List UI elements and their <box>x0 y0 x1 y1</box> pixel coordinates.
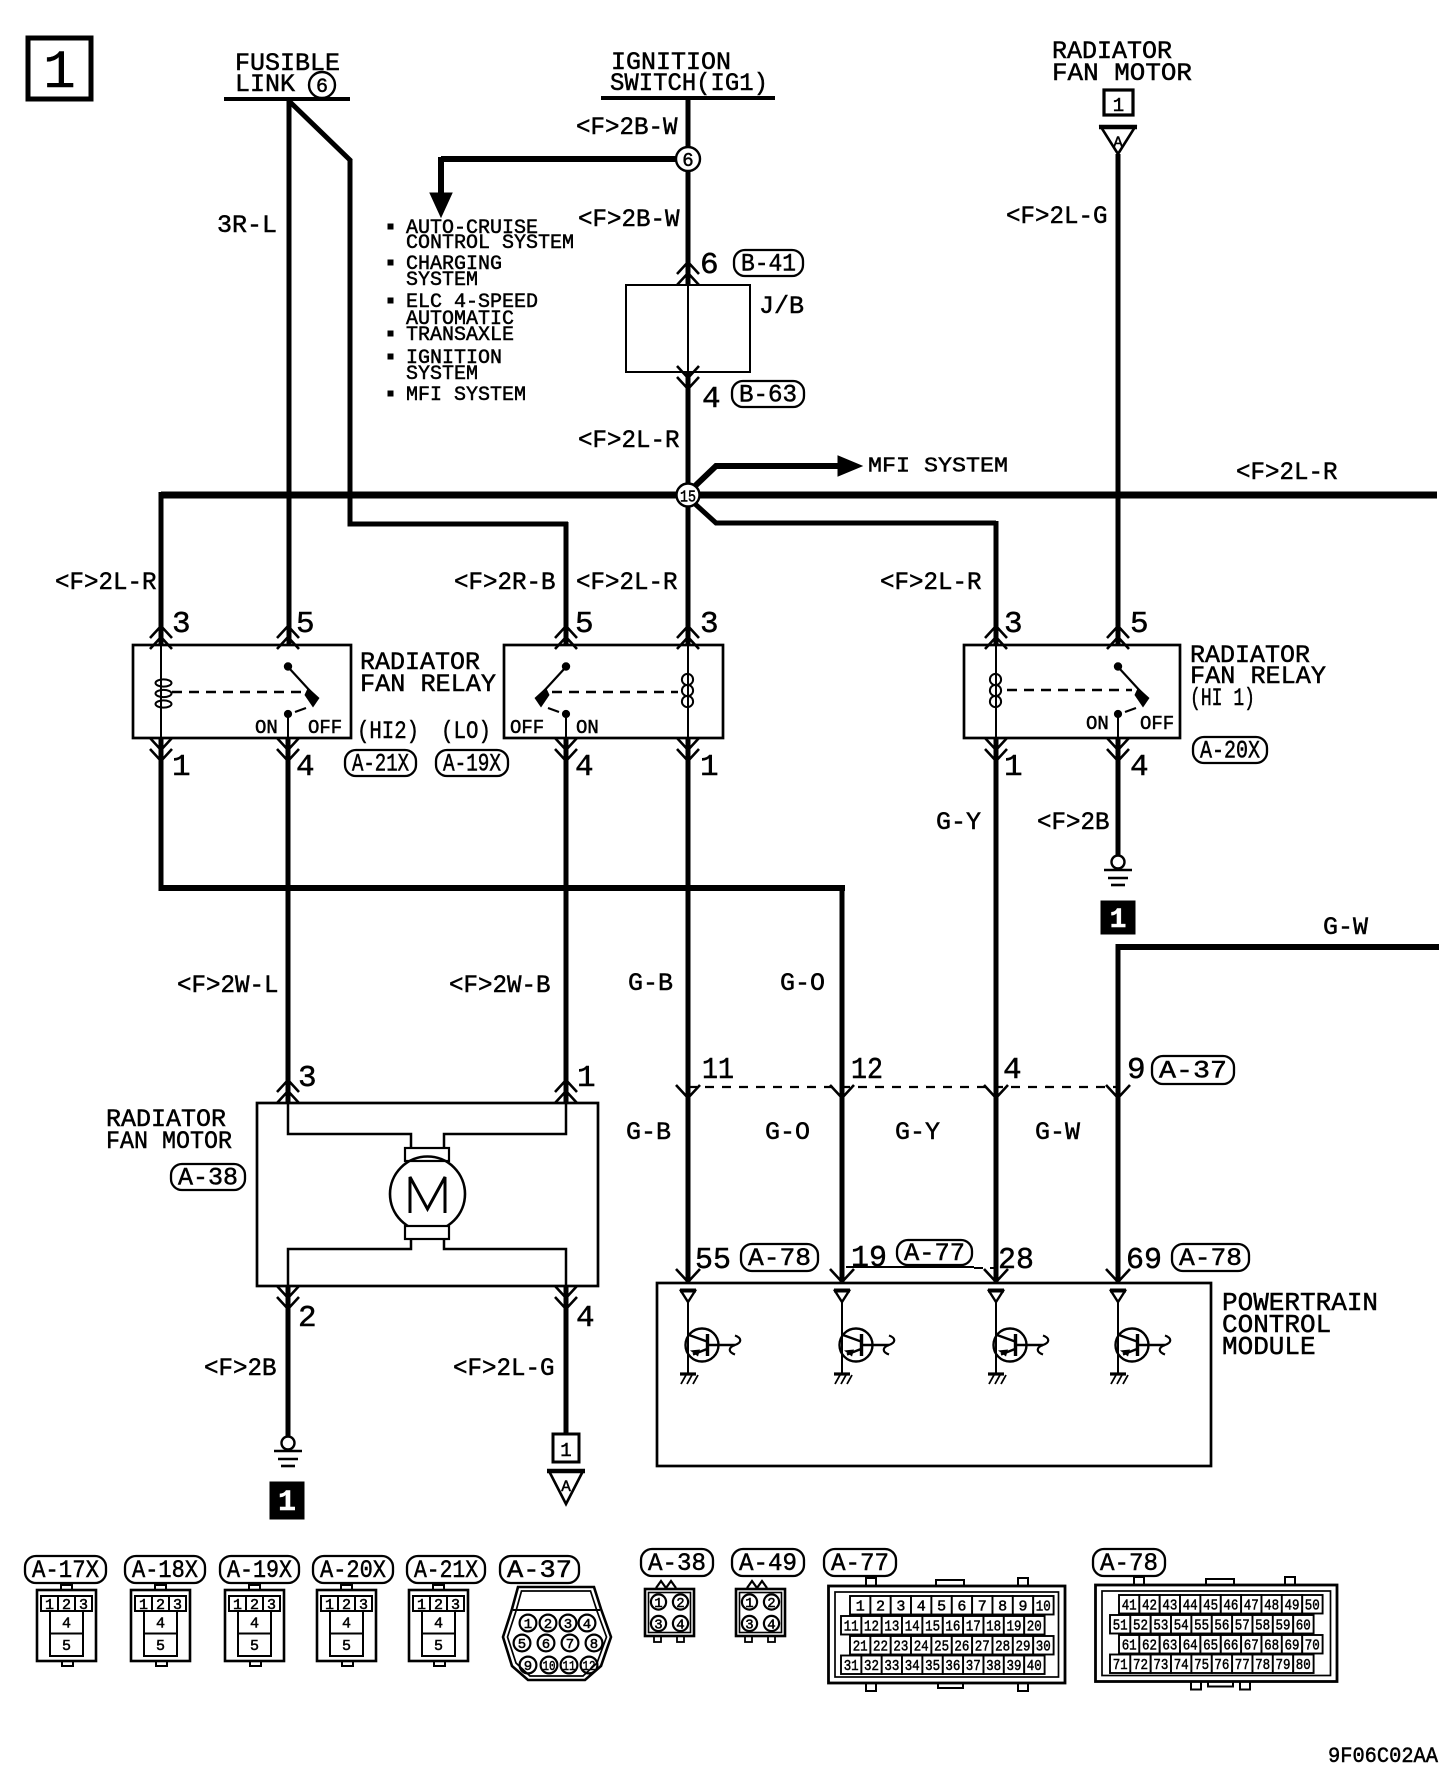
svg-text:<F>2L-R: <F>2L-R <box>576 568 678 597</box>
svg-text:A-17X: A-17X <box>32 1556 99 1585</box>
svg-text:72: 72 <box>1133 1657 1148 1674</box>
svg-text:5: 5 <box>518 1637 526 1653</box>
svg-text:5: 5 <box>937 1599 946 1616</box>
svg-text:29: 29 <box>1016 1639 1031 1656</box>
svg-text:76: 76 <box>1214 1657 1229 1674</box>
svg-text:71: 71 <box>1113 1657 1128 1674</box>
svg-text:6: 6 <box>542 1637 550 1653</box>
svg-text:65: 65 <box>1203 1638 1218 1655</box>
svg-text:<F>2L-G: <F>2L-G <box>1006 202 1108 231</box>
svg-text:44: 44 <box>1183 1598 1198 1615</box>
svg-text:<F>2L-G: <F>2L-G <box>453 1354 555 1383</box>
svg-text:17: 17 <box>966 1619 981 1636</box>
svg-text:69: 69 <box>1285 1638 1300 1655</box>
svg-text:73: 73 <box>1153 1657 1168 1674</box>
svg-text:A-19X: A-19X <box>227 1556 292 1585</box>
svg-text:A-78: A-78 <box>1179 1244 1242 1273</box>
svg-text:1: 1 <box>856 1599 865 1616</box>
svg-text:67: 67 <box>1244 1638 1259 1655</box>
svg-text:<F>2L-R: <F>2L-R <box>1236 458 1338 487</box>
svg-text:A-78: A-78 <box>1100 1549 1158 1578</box>
svg-text:3: 3 <box>896 1599 905 1616</box>
svg-text:43: 43 <box>1162 1598 1177 1615</box>
svg-text:LINK: LINK <box>235 70 295 99</box>
svg-text:62: 62 <box>1142 1638 1157 1655</box>
svg-text:A-19X: A-19X <box>443 750 501 779</box>
svg-text:5: 5 <box>296 607 315 642</box>
svg-text:74: 74 <box>1174 1657 1189 1674</box>
svg-text:OFF: OFF <box>1140 713 1174 735</box>
svg-text:39: 39 <box>1007 1658 1022 1675</box>
svg-text:1: 1 <box>700 750 719 785</box>
svg-text:70: 70 <box>1305 1638 1320 1655</box>
svg-text:OFF: OFF <box>510 717 544 739</box>
svg-text:8: 8 <box>590 1637 598 1653</box>
svg-text:25: 25 <box>934 1639 949 1656</box>
svg-text:10: 10 <box>543 1659 556 1675</box>
svg-text:15: 15 <box>925 1619 940 1636</box>
svg-text:8: 8 <box>998 1599 1007 1616</box>
svg-text:32: 32 <box>864 1658 879 1675</box>
svg-text:11: 11 <box>702 1053 734 1088</box>
svg-text:34: 34 <box>905 1658 920 1675</box>
svg-text:<F>2B-W: <F>2B-W <box>578 205 680 234</box>
svg-text:4: 4 <box>1003 1053 1022 1088</box>
svg-text:6: 6 <box>700 248 719 283</box>
svg-text:G-W: G-W <box>1323 913 1368 942</box>
svg-text:38: 38 <box>986 1658 1001 1675</box>
svg-text:<F>2R-B: <F>2R-B <box>454 568 556 597</box>
svg-text:50: 50 <box>1305 1598 1320 1615</box>
svg-text:A-20X: A-20X <box>1200 737 1260 766</box>
svg-text:58: 58 <box>1255 1618 1270 1635</box>
svg-text:4: 4 <box>917 1599 926 1616</box>
svg-text:B-63: B-63 <box>739 381 797 410</box>
svg-text:<F>2L-R: <F>2L-R <box>55 568 157 597</box>
svg-text:A-20X: A-20X <box>320 1556 386 1585</box>
svg-text:63: 63 <box>1162 1638 1177 1655</box>
svg-text:A: A <box>1113 134 1123 152</box>
svg-text:G-Y: G-Y <box>936 808 981 837</box>
svg-text:<F>2L-R: <F>2L-R <box>578 426 680 455</box>
svg-text:(HI 1): (HI 1) <box>1190 684 1255 713</box>
svg-text:A-37: A-37 <box>507 1556 572 1585</box>
svg-text:1: 1 <box>278 1486 296 1520</box>
svg-text:A-77: A-77 <box>831 1549 889 1578</box>
svg-text:5: 5 <box>1130 607 1149 642</box>
svg-text:22: 22 <box>873 1639 888 1656</box>
svg-text:SWITCH(IG1): SWITCH(IG1) <box>610 69 768 98</box>
svg-text:61: 61 <box>1122 1638 1137 1655</box>
svg-text:FAN RELAY: FAN RELAY <box>360 670 496 699</box>
svg-text:12: 12 <box>864 1619 879 1636</box>
svg-text:4: 4 <box>1130 750 1149 785</box>
svg-text:36: 36 <box>945 1658 960 1675</box>
svg-text:A: A <box>561 1478 571 1496</box>
svg-text:51: 51 <box>1113 1618 1128 1635</box>
svg-text:19: 19 <box>1007 1619 1022 1636</box>
svg-text:J/B: J/B <box>759 292 804 321</box>
svg-text:A-21X: A-21X <box>414 1556 478 1585</box>
svg-text:A-21X: A-21X <box>352 750 409 779</box>
svg-text:20: 20 <box>1027 1619 1042 1636</box>
svg-text:1: 1 <box>172 750 191 785</box>
svg-text:G-W: G-W <box>1035 1118 1080 1147</box>
svg-text:G-B: G-B <box>628 969 673 998</box>
svg-text:24: 24 <box>914 1639 929 1656</box>
svg-text:30: 30 <box>1036 1639 1051 1656</box>
svg-text:3: 3 <box>700 607 719 642</box>
svg-text:49: 49 <box>1285 1598 1300 1615</box>
svg-text:SYSTEM: SYSTEM <box>406 269 478 292</box>
svg-text:(LO): (LO) <box>441 717 491 746</box>
svg-text:A-38: A-38 <box>648 1549 706 1578</box>
svg-text:35: 35 <box>925 1658 940 1675</box>
svg-text:52: 52 <box>1133 1618 1148 1635</box>
svg-text:1: 1 <box>1113 95 1124 117</box>
svg-text:<F>2B-W: <F>2B-W <box>576 113 678 142</box>
svg-text:3: 3 <box>564 1617 572 1633</box>
svg-text:<F>2B: <F>2B <box>204 1354 277 1383</box>
svg-text:CONTROL SYSTEM: CONTROL SYSTEM <box>406 232 574 255</box>
svg-text:69: 69 <box>1126 1243 1162 1278</box>
svg-text:55: 55 <box>695 1243 731 1278</box>
svg-text:1: 1 <box>577 1061 596 1096</box>
svg-text:27: 27 <box>975 1639 990 1656</box>
svg-text:15: 15 <box>680 489 696 508</box>
svg-text:G-O: G-O <box>780 969 825 998</box>
svg-text:<F>2W-L: <F>2W-L <box>177 971 279 1000</box>
svg-text:9: 9 <box>524 1659 532 1675</box>
svg-text:28: 28 <box>995 1639 1010 1656</box>
svg-text:4: 4 <box>296 750 315 785</box>
svg-text:9F06C02AA: 9F06C02AA <box>1328 1744 1439 1769</box>
svg-text:<F>2L-R: <F>2L-R <box>880 568 982 597</box>
svg-text:G-O: G-O <box>765 1118 810 1147</box>
svg-text:A-77: A-77 <box>904 1239 965 1268</box>
svg-text:ON: ON <box>255 717 278 739</box>
svg-text:10: 10 <box>1036 1599 1051 1616</box>
svg-text:68: 68 <box>1264 1638 1279 1655</box>
svg-text:21: 21 <box>853 1639 868 1656</box>
svg-text:7: 7 <box>566 1637 574 1653</box>
svg-text:G-B: G-B <box>626 1118 671 1147</box>
svg-text:9: 9 <box>1127 1053 1146 1088</box>
svg-text:4: 4 <box>702 382 721 417</box>
svg-text:SYSTEM: SYSTEM <box>406 363 478 386</box>
svg-text:37: 37 <box>966 1658 981 1675</box>
svg-text:1: 1 <box>1110 905 1127 936</box>
svg-text:(HI2): (HI2) <box>357 717 419 746</box>
svg-text:47: 47 <box>1244 1598 1259 1615</box>
svg-text:<F>2W-B: <F>2W-B <box>449 971 551 1000</box>
svg-text:A-49: A-49 <box>739 1549 797 1578</box>
svg-text:4: 4 <box>576 1301 595 1336</box>
svg-text:46: 46 <box>1223 1598 1238 1615</box>
svg-text:2: 2 <box>298 1301 317 1336</box>
svg-text:54: 54 <box>1174 1618 1189 1635</box>
svg-text:59: 59 <box>1276 1618 1291 1635</box>
svg-text:11: 11 <box>563 1659 576 1675</box>
svg-text:6: 6 <box>316 76 328 99</box>
svg-text:OFF: OFF <box>308 717 342 739</box>
svg-text:4: 4 <box>583 1617 591 1633</box>
svg-text:MFI SYSTEM: MFI SYSTEM <box>406 384 526 407</box>
svg-text:7: 7 <box>978 1599 987 1616</box>
svg-text:3: 3 <box>172 607 191 642</box>
svg-text:66: 66 <box>1223 1638 1238 1655</box>
svg-text:B-41: B-41 <box>741 250 796 279</box>
svg-text:3: 3 <box>1004 607 1023 642</box>
svg-text:<F>2B: <F>2B <box>1037 808 1110 837</box>
svg-text:75: 75 <box>1194 1657 1209 1674</box>
svg-text:42: 42 <box>1142 1598 1157 1615</box>
svg-text:56: 56 <box>1214 1618 1229 1635</box>
svg-text:6: 6 <box>682 150 693 172</box>
svg-text:1: 1 <box>524 1617 532 1633</box>
svg-text:48: 48 <box>1264 1598 1279 1615</box>
svg-text:1: 1 <box>1004 750 1023 785</box>
svg-text:1: 1 <box>560 1440 571 1462</box>
svg-text:16: 16 <box>945 1619 960 1636</box>
svg-text:6: 6 <box>957 1599 966 1616</box>
svg-text:26: 26 <box>954 1639 969 1656</box>
svg-text:1: 1 <box>43 43 75 104</box>
svg-text:TRANSAXLE: TRANSAXLE <box>406 324 514 347</box>
svg-text:79: 79 <box>1276 1657 1291 1674</box>
svg-text:ON: ON <box>1086 713 1109 735</box>
svg-text:14: 14 <box>905 1619 920 1636</box>
svg-text:60: 60 <box>1296 1618 1311 1635</box>
svg-text:A-78: A-78 <box>748 1244 811 1273</box>
svg-text:64: 64 <box>1183 1638 1198 1655</box>
svg-text:2: 2 <box>544 1617 552 1633</box>
svg-text:2: 2 <box>876 1599 885 1616</box>
svg-text:33: 33 <box>884 1658 899 1675</box>
svg-text:A-38: A-38 <box>178 1164 238 1193</box>
svg-text:31: 31 <box>844 1658 859 1675</box>
svg-text:78: 78 <box>1255 1657 1270 1674</box>
svg-text:40: 40 <box>1027 1658 1042 1675</box>
svg-text:13: 13 <box>884 1619 899 1636</box>
svg-text:FAN MOTOR: FAN MOTOR <box>1052 59 1192 88</box>
svg-text:53: 53 <box>1153 1618 1168 1635</box>
svg-text:55: 55 <box>1194 1618 1209 1635</box>
svg-text:A-18X: A-18X <box>132 1556 198 1585</box>
svg-text:45: 45 <box>1203 1598 1218 1615</box>
svg-text:12: 12 <box>583 1659 596 1675</box>
svg-text:5: 5 <box>575 607 594 642</box>
svg-text:80: 80 <box>1296 1657 1311 1674</box>
svg-text:77: 77 <box>1235 1657 1250 1674</box>
svg-text:3: 3 <box>298 1061 317 1096</box>
svg-text:4: 4 <box>575 750 594 785</box>
svg-text:G-Y: G-Y <box>895 1118 940 1147</box>
svg-text:57: 57 <box>1235 1618 1250 1635</box>
svg-text:11: 11 <box>844 1619 859 1636</box>
svg-text:ON: ON <box>576 717 599 739</box>
svg-text:12: 12 <box>851 1053 883 1088</box>
svg-text:3R-L: 3R-L <box>217 211 277 240</box>
svg-text:MODULE: MODULE <box>1222 1332 1316 1362</box>
svg-text:FAN MOTOR: FAN MOTOR <box>106 1127 232 1156</box>
svg-text:23: 23 <box>893 1639 908 1656</box>
svg-text:9: 9 <box>1018 1599 1027 1616</box>
svg-text:MFI SYSTEM: MFI SYSTEM <box>868 455 1008 478</box>
svg-text:A-37: A-37 <box>1159 1057 1227 1086</box>
svg-text:41: 41 <box>1122 1598 1137 1615</box>
svg-text:28: 28 <box>998 1243 1034 1278</box>
svg-text:19: 19 <box>851 1241 887 1276</box>
svg-text:18: 18 <box>986 1619 1001 1636</box>
